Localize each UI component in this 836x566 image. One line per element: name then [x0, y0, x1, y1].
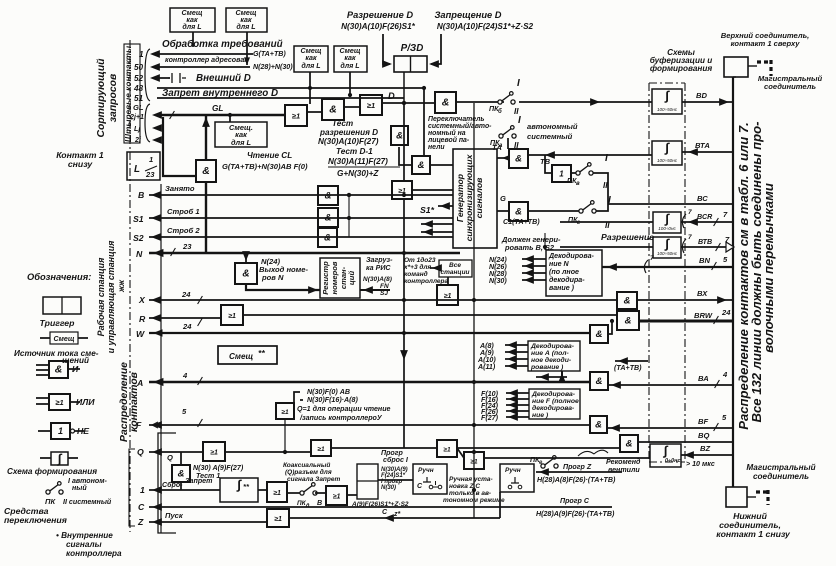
svg-text:ВА: ВА: [698, 374, 709, 383]
wire decodeF out5: [506, 416, 529, 418]
OR gate Q3: [437, 440, 457, 457]
svg-text:BF: BF: [698, 417, 708, 426]
svg-text:сигналы: сигналы: [66, 540, 102, 549]
svg-text:51: 51: [134, 94, 144, 103]
svg-text:/запись контроллероУ: /запись контроллероУ: [299, 414, 383, 422]
svg-text:&: &: [325, 190, 332, 201]
wire Q mid3: [457, 447, 620, 449]
svg-text:Внешний D: Внешний D: [196, 73, 251, 84]
svg-text:д: д: [306, 503, 310, 509]
wire BQ: [638, 441, 733, 443]
svg-text:0÷0нс: 0÷0нс: [665, 458, 681, 464]
svg-text:лицевой па-: лицевой па-: [427, 136, 470, 144]
BC line: [608, 203, 733, 205]
int box BD: [652, 89, 682, 114]
switch PKd: [300, 491, 304, 495]
manual box 2: [500, 464, 534, 492]
svg-text:ный: ный: [72, 484, 87, 492]
svg-text:7: 7: [650, 255, 654, 262]
svg-text:N(30)A(10)F(26)S1*: N(30)A(10)F(26)S1*: [341, 22, 416, 31]
svg-text:сигналов: сигналов: [474, 177, 484, 219]
switch PKv: [576, 171, 580, 175]
trunk bus vertical: [732, 77, 734, 487]
svg-text:23: 23: [145, 170, 155, 179]
offset box 4: [334, 46, 367, 72]
svg-text:z*: z*: [393, 510, 402, 518]
label TATB right: [615, 360, 648, 362]
svg-text:рование ): рование ): [530, 364, 564, 371]
left rail: [160, 184, 162, 533]
svg-text:ние ): ние ): [532, 412, 549, 419]
svg-text:I: I: [605, 153, 608, 164]
wire inhibit to P/3D: [431, 34, 441, 64]
curve mark BTB: [682, 239, 686, 253]
svg-text:≥1: ≥1: [470, 458, 478, 465]
AND gate QI: [172, 465, 190, 482]
vertical from P/3D lower: [403, 199, 405, 448]
wire D line: [382, 102, 435, 104]
legend switch symbol: [46, 490, 50, 494]
svg-text:Р/ЗD: Р/ЗD: [401, 43, 424, 54]
wire connector-top to elbow: [748, 65, 757, 67]
svg-text:100÷50нс: 100÷50нс: [657, 107, 678, 112]
wire AF down: [284, 419, 286, 452]
buffer column top cap: [649, 82, 685, 84]
buffer column divider right (dash-dot): [684, 83, 686, 462]
svg-text:100÷0нс: 100÷0нс: [658, 226, 676, 231]
svg-text:(ТА+ТВ): (ТА+ТВ): [614, 364, 642, 372]
svg-text:&: &: [515, 153, 522, 164]
svg-text:100÷50нс: 100÷50нс: [657, 251, 678, 256]
svg-text:Прогр С: Прогр С: [560, 497, 590, 505]
svg-text:для L: для L: [231, 138, 252, 147]
wire OR B2 out: [412, 189, 453, 191]
wire decodeN out3: [522, 272, 546, 274]
curve mark BGR: [682, 214, 686, 228]
AND gate A: [590, 372, 608, 390]
svg-text:Строб 2: Строб 2: [167, 226, 200, 235]
svg-text:52: 52: [134, 74, 144, 83]
svg-text:Z: Z: [137, 517, 144, 527]
svg-text:24: 24: [182, 322, 192, 331]
svg-text:7: 7: [688, 209, 692, 216]
wire BZ right: [681, 454, 733, 456]
buffer column divider left (dash-dot): [648, 83, 650, 462]
svg-text:снизу: снизу: [68, 159, 93, 169]
wire BGR right: [681, 221, 733, 223]
svg-text:≥1: ≥1: [443, 446, 451, 453]
wire TA out: [528, 154, 652, 156]
wire BTB in: [560, 246, 653, 248]
left section divider (dash-dot): [129, 40, 131, 532]
svg-text:Рекоменд: Рекоменд: [606, 458, 641, 466]
svg-text:в: в: [576, 181, 580, 187]
svg-text:≥1: ≥1: [55, 398, 63, 407]
svg-text:Ручн: Ручн: [418, 467, 434, 474]
wire AF up texts: [294, 392, 303, 403]
OR gate Q2: [311, 440, 331, 456]
svg-text:G: G: [500, 194, 506, 203]
buffer column bottom cap: [649, 461, 685, 463]
svg-text:ное декоди-: ное декоди-: [531, 356, 572, 364]
svg-text:FN: FN: [380, 283, 389, 290]
svg-text:Тест: Тест: [332, 119, 353, 128]
wire to ruchn1: [378, 479, 413, 481]
svg-text:4: 4: [182, 371, 188, 380]
svg-text:Чтение CL: Чтение CL: [247, 151, 292, 160]
svg-text:G(TA+TB)+N(30)АВ F(0): G(TA+TB)+N(30)АВ F(0): [222, 162, 308, 171]
generator box: [453, 149, 497, 248]
svg-text:Сортирующий: Сортирующий: [96, 58, 107, 138]
svg-text:ИЛИ: ИЛИ: [76, 397, 95, 407]
wire I mid2: [287, 492, 302, 494]
svg-text:ние А (пол-: ние А (пол-: [531, 350, 570, 357]
svg-text:BZ: BZ: [700, 444, 710, 453]
svg-text:N: N: [136, 249, 143, 259]
wire trunk-top: [733, 76, 736, 78]
AND gate TA: [509, 149, 528, 168]
svg-text:• Внутренние: • Внутренние: [56, 531, 113, 540]
svg-text:&: &: [202, 165, 210, 177]
svg-text:1: 1: [140, 485, 145, 495]
svg-text:48: 48: [133, 84, 144, 93]
svg-text:≥1: ≥1: [367, 101, 375, 110]
svg-text:≥1: ≥1: [273, 490, 281, 497]
svg-text:&: &: [596, 329, 603, 340]
svg-text:Обработка требований: Обработка требований: [162, 39, 283, 50]
svg-text:&: &: [178, 468, 185, 479]
svg-text:контроллер адресован: контроллер адресован: [165, 56, 249, 64]
svg-text:ров N: ров N: [261, 273, 284, 282]
svg-text:Переключатель: Переключатель: [428, 116, 484, 123]
svg-text:&: &: [329, 104, 337, 116]
bottom dashed elbow: [756, 490, 768, 505]
svg-text:D: D: [388, 91, 395, 101]
switch PKe: [541, 464, 545, 468]
wire PKa down: [507, 138, 509, 149]
svg-text:номный на: номный на: [428, 129, 466, 137]
AND gate N24: [235, 263, 257, 284]
junction dots: [228, 113, 232, 117]
svg-text:для L: для L: [301, 62, 320, 70]
svg-text:для L: для L: [182, 23, 201, 31]
wire P/3D down: [403, 72, 405, 103]
svg-text:50: 50: [134, 63, 144, 72]
svg-text:х*+3 для: х*+3 для: [403, 263, 431, 271]
svg-text:&: &: [55, 364, 63, 376]
wire register right in: [360, 289, 390, 291]
svg-text:&: &: [625, 315, 632, 326]
wire I mid3: [315, 492, 326, 494]
svg-text:Ручн: Ручн: [505, 467, 521, 474]
svg-text:А: А: [136, 378, 143, 388]
svg-text:N(30): N(30): [489, 277, 507, 285]
wire switch to BD: [519, 101, 652, 103]
svg-text:&: &: [324, 232, 331, 243]
wire decodeF out2: [506, 398, 529, 400]
OR gate AF: [276, 403, 294, 419]
wire Z out: [289, 517, 500, 519]
svg-text:ВСR: ВСR: [697, 213, 713, 221]
wire decodeA out2: [505, 351, 528, 353]
svg-text:Схема формирования: Схема формирования: [7, 467, 97, 476]
legend trigger symbol: [43, 297, 81, 314]
wire TB elbow: [545, 155, 552, 173]
svg-text:Сбро-: Сбро-: [162, 481, 183, 489]
svg-text:II системный: II системный: [63, 498, 112, 506]
capacitor-like mark: [168, 73, 186, 83]
svg-text:N(30): N(30): [381, 485, 396, 491]
AND gate BX: [617, 292, 637, 309]
svg-text:≥1: ≥1: [210, 450, 218, 457]
svg-text:7: 7: [688, 234, 692, 241]
svg-text:разрешения D: разрешения D: [319, 128, 378, 137]
svg-text:F: F: [136, 420, 142, 430]
int box BTA: [652, 141, 682, 165]
svg-text:&: &: [596, 376, 603, 387]
svg-text:N(30) A(9)F(27): N(30) A(9)F(27): [193, 464, 244, 472]
svg-text:Декодирова-: Декодирова-: [530, 342, 575, 350]
svg-text:G+N(30)+Z: G+N(30)+Z: [337, 169, 379, 178]
OR gate allst: [437, 285, 458, 305]
OR gate D: [360, 95, 382, 115]
svg-text:ВТВ: ВТВ: [698, 238, 712, 246]
svg-text:формирования: формирования: [650, 64, 713, 73]
svg-text:соединитель: соединитель: [753, 472, 809, 481]
decode N box: [546, 250, 602, 296]
wire AND to register: [246, 284, 320, 290]
svg-text:≥1: ≥1: [292, 112, 300, 121]
svg-text:1: 1: [139, 50, 144, 59]
switch PKg: [579, 209, 583, 213]
svg-text:≥1: ≥1: [444, 293, 452, 300]
svg-text:ние N: ние N: [549, 260, 570, 268]
wire decodeA bottom: [536, 376, 567, 378]
svg-text:соединитель: соединитель: [764, 82, 816, 91]
svg-text:запросов: запросов: [108, 73, 119, 122]
legend bias box: [50, 332, 78, 344]
offset box 3: [294, 46, 328, 72]
svg-text:BRW: BRW: [694, 311, 713, 320]
svg-text:волочными перемычками: волочными перемычками: [761, 183, 776, 353]
AND gate G: [509, 202, 528, 221]
svg-text:F(27): F(27): [481, 414, 499, 422]
svg-text:&: &: [396, 130, 403, 141]
svg-text:декодира-: декодира-: [549, 276, 585, 284]
top connector box: [724, 57, 748, 77]
svg-text:&: &: [626, 438, 633, 449]
offset box 1: [170, 8, 215, 32]
wire TB out: [571, 172, 578, 174]
svg-text:сброс I: сброс I: [383, 456, 409, 464]
svg-text:Занято: Занято: [165, 184, 195, 193]
svg-text:≥1: ≥1: [281, 409, 289, 416]
svg-text:I: I: [518, 115, 521, 126]
svg-text:24: 24: [721, 308, 731, 317]
svg-text:вание ): вание ): [549, 284, 575, 292]
wire decodeF out3: [506, 404, 529, 406]
offset box A row: [218, 346, 277, 364]
svg-text:&: &: [515, 206, 522, 217]
legend OR gate: [49, 394, 70, 410]
OR gate I1: [267, 482, 287, 502]
svg-text:ПК: ПК: [45, 497, 56, 506]
wire BTA out: [682, 151, 733, 153]
svg-text:жж: жж: [117, 279, 126, 293]
wire BGR in: [560, 221, 653, 223]
svg-text:Lј: Lј: [134, 125, 141, 133]
svg-text:N(30)A(10)F(27): N(30)A(10)F(27): [318, 137, 379, 146]
svg-text:GL: GL: [212, 104, 223, 113]
AND gate B: [318, 186, 338, 205]
wire G out to switch: [528, 210, 581, 212]
pin-strip bracket: [145, 49, 150, 142]
svg-text:&: &: [242, 269, 249, 280]
AND gate BRW: [617, 311, 639, 330]
wire decodeA out3: [505, 358, 528, 360]
svg-text:BD: BD: [696, 91, 707, 100]
svg-text:N(30)A(11)F(27): N(30)A(11)F(27): [328, 157, 388, 166]
svg-text:S1*: S1*: [420, 205, 435, 215]
wire AND to OR D: [344, 106, 360, 108]
svg-text:переключения: переключения: [4, 515, 67, 525]
svg-text:&: &: [442, 97, 450, 109]
wire Q mid: [225, 451, 311, 453]
svg-text:номеров: номеров: [330, 261, 339, 294]
AND gate S2: [318, 228, 337, 247]
svg-text:100÷50нс: 100÷50нс: [657, 158, 678, 163]
svg-text:&: &: [418, 160, 425, 171]
svg-text:контроллера: контроллера: [66, 549, 122, 558]
junction S1: [347, 216, 351, 220]
switch PKa: [499, 134, 503, 138]
int box BTB: [653, 237, 681, 258]
wire GL to offset box: [229, 115, 231, 122]
OR gate Z: [267, 509, 289, 527]
svg-text:1: 1: [149, 155, 153, 164]
svg-text:&: &: [325, 212, 332, 223]
svg-text:24: 24: [181, 290, 191, 299]
bottom pins bracket inner: [158, 433, 176, 533]
svg-text:Смещ: Смещ: [54, 335, 75, 343]
svg-text:ВТА: ВТА: [695, 141, 710, 150]
svg-text:&: &: [624, 295, 631, 306]
flip-flop P/3D: [394, 56, 427, 72]
svg-text:тономном режиме: тономном режиме: [443, 497, 505, 504]
wire decodeA out1: [505, 344, 528, 346]
svg-text:Декодирова-: Декодирова-: [531, 390, 576, 398]
svg-text:I: I: [517, 78, 520, 89]
wire PKv out: [593, 173, 608, 204]
manual box 1: [413, 464, 447, 494]
svg-text:≥1: ≥1: [274, 516, 282, 523]
junction B: [347, 193, 351, 197]
svg-text:Тест D-1: Тест D-1: [336, 147, 373, 156]
OR gate GL: [285, 105, 307, 126]
wire BD out: [682, 101, 733, 103]
svg-text:Q: Q: [137, 447, 144, 457]
svg-text:≥1: ≥1: [228, 313, 236, 320]
OR gate B2: [392, 181, 412, 199]
wire N to AND: [245, 253, 247, 263]
svg-text:Коаксиальный: Коаксиальный: [283, 461, 330, 469]
OR gate Z4: [464, 452, 484, 469]
wire I mid4: [347, 494, 357, 496]
wire BX: [637, 299, 733, 301]
vertical from P/3D upper: [403, 103, 405, 181]
svg-text:С: С: [382, 508, 388, 516]
svg-text:23: 23: [182, 242, 192, 251]
pin-strip outline: [124, 44, 140, 143]
svg-text:НЕ: НЕ: [77, 426, 90, 436]
svg-text:ка РИС: ка РИС: [366, 264, 391, 272]
wire BZ left: [484, 457, 650, 459]
wire decodeF out4: [506, 410, 529, 412]
svg-text:C: C: [417, 482, 423, 490]
svg-text:Триггер: Триггер: [40, 318, 76, 328]
wire decodeA out4: [505, 365, 528, 367]
svg-text:N(28)+N(30): N(28)+N(30): [253, 63, 293, 71]
svg-text:(Q)разъем для: (Q)разъем для: [285, 468, 332, 476]
svg-text:В: В: [317, 499, 322, 507]
svg-text:W: W: [136, 329, 145, 339]
AND gate S1: [318, 208, 338, 227]
wire Q branch down: [180, 452, 182, 465]
junction bus vertical: [348, 195, 350, 237]
svg-text:нели: нели: [428, 144, 445, 151]
svg-text:N(30)A(10)F(24)S1*+Z·S2: N(30)A(10)F(24)S1*+Z·S2: [437, 22, 534, 31]
svg-text:Регистр: Регистр: [321, 261, 330, 295]
svg-text:контакт 1 сверху: контакт 1 сверху: [731, 39, 801, 48]
svg-text:4: 4: [722, 370, 728, 379]
int box BGR: [653, 212, 681, 233]
svg-text:Магистральный: Магистральный: [746, 463, 815, 472]
AND gate F: [590, 416, 607, 433]
svg-text:для L: для L: [236, 23, 255, 31]
svg-text:R: R: [139, 314, 146, 324]
legend NOT gate: [51, 423, 70, 439]
svg-text:как: как: [344, 54, 356, 62]
BN bus: [602, 266, 733, 268]
svg-text:А(11): А(11): [477, 363, 496, 371]
svg-text:Н(28)А(9)F(26)·(ТА+ТВ): Н(28)А(9)F(26)·(ТА+ТВ): [536, 510, 615, 518]
wire BF: [607, 427, 733, 429]
svg-text:Н(28)А(8)F(26)·(ТА+ТВ): Н(28)А(8)F(26)·(ТА+ТВ): [537, 476, 616, 484]
svg-text:Q=1 для операции чтение: Q=1 для операции чтение: [297, 405, 391, 413]
svg-text:≥1: ≥1: [317, 446, 325, 453]
svg-text:вентили: вентили: [608, 466, 640, 474]
svg-text:2ј+1: 2ј+1: [129, 113, 144, 121]
wire box2 down: [246, 32, 248, 65]
wire x424 vertical: [423, 88, 425, 156]
svg-text:В: В: [138, 190, 144, 200]
svg-text:как: как: [305, 54, 317, 62]
svg-text:Разрешение: Разрешение: [601, 232, 654, 242]
wire CL AND down out: [205, 182, 207, 253]
wire CL AND up out: [205, 115, 207, 160]
OR gate R: [221, 305, 243, 325]
svg-text:SJ: SJ: [380, 290, 388, 297]
all stations box: [439, 260, 472, 277]
AND gate CL read: [196, 160, 216, 182]
switch PKb: [498, 100, 502, 104]
NOT gate TB: [552, 165, 571, 182]
svg-text:ТА: ТА: [492, 143, 502, 152]
wire Lj elbow: [163, 117, 196, 176]
wire box3 down: [309, 72, 311, 104]
svg-text:**: **: [243, 482, 250, 491]
legend former box: [51, 452, 68, 465]
